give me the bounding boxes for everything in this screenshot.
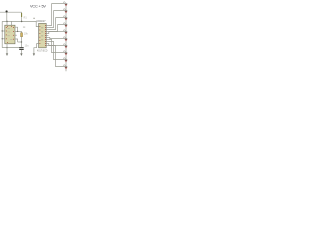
LED D6: [63, 36, 67, 41]
LED D5: [63, 29, 67, 34]
LED D1: [63, 1, 67, 6]
svg-text:CD4017: CD4017: [36, 20, 46, 23]
wire VCC to U2 pin16: [36, 21, 38, 26]
wire Q route row3: [48, 18, 64, 30]
LED D2: [63, 8, 67, 13]
LED D4: [63, 22, 67, 27]
junction dot U1 pin8 drop: [6, 21, 8, 23]
wire bottom horizontal to C1 top: [2, 47, 19, 49]
LED D7: [63, 43, 67, 48]
junction dot: [2, 30, 3, 31]
wire Q route row5: [48, 32, 64, 34]
wire U1 pin? stub right lower: [15, 39, 18, 42]
LED D8: [63, 50, 67, 55]
wire Q route row8: [48, 40, 64, 53]
wire left rail down: [1, 21, 3, 47]
ground arrow 2: [20, 53, 22, 56]
IC U2 4017 body: [39, 23, 47, 47]
junction dot on gnd drop: [6, 47, 7, 48]
wire Q route row7: [48, 44, 64, 46]
wire Q route row9: [48, 42, 64, 60]
wire C1 bottom stem: [20, 50, 22, 54]
wire Q route row1: [48, 4, 64, 26]
wire U1 pin7 stub right to R ladder: [15, 27, 18, 31]
wire U1 pin1 gnd drop: [6, 44, 8, 54]
wire R2 bottom down to C1: [21, 37, 23, 48]
wire VCC rail horizontal: [0, 11, 22, 13]
wire R2 top: [21, 31, 23, 32]
wire VCC distribution rail: [2, 20, 36, 22]
U2 right pin stubs: [46, 26, 48, 46]
wire U1 pin3 out: [15, 30, 22, 32]
svg-text:10u: 10u: [25, 45, 30, 48]
wire Q route row6: [48, 38, 64, 39]
capacitor C1 plates: [19, 47, 24, 48]
U1 pin name smudges: [7, 28, 12, 40]
wire Q route row4: [48, 25, 64, 32]
node junction on VCC rail: [6, 10, 8, 12]
wire U1 pin8 stub: [6, 21, 8, 25]
wire U2 pin8 gnd: [34, 44, 39, 54]
LED D10: [63, 64, 67, 69]
LED D3: [63, 15, 67, 20]
power terminal stem: [21, 12, 23, 21]
junction dot at power stem: [21, 21, 23, 23]
junction dot: [2, 38, 3, 39]
ground arrow 3: [33, 53, 35, 56]
LED cathode chain vertical: [65, 4, 67, 72]
U2 pin name smudges: [41, 28, 43, 41]
wire Q route row2: [48, 11, 64, 28]
junction dot: [21, 41, 22, 42]
wire Q route row10: [48, 46, 64, 67]
wire pin link horizontal: [18, 41, 22, 43]
pin label speck: [33, 17, 35, 20]
wire VCC drop to U1 pin8: [6, 12, 8, 21]
wire U1 pin2 stub left: [2, 30, 5, 32]
LED D9: [63, 57, 67, 62]
resistor R2 body: [21, 33, 23, 37]
U2 pin numbers right (red specks): [39, 25, 46, 46]
svg-text:VCC + 5V: VCC + 5V: [30, 4, 46, 8]
wire U1 pin5 short stub: [15, 34, 17, 36]
junction dot: [17, 31, 18, 32]
op IC U1 555 body: [5, 25, 15, 44]
U1 pin numbers (red specks): [6, 26, 14, 43]
svg-text:BCD: BCD: [43, 51, 48, 53]
background: [0, 0, 72, 72]
wire U1 pin4 stub: [10, 21, 12, 25]
wire U1 pin6 stub left: [2, 38, 5, 40]
ground arrow 1: [6, 53, 8, 56]
